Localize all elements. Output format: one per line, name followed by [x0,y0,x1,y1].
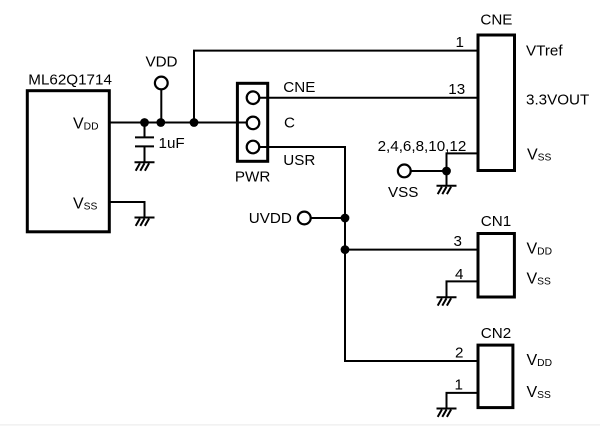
svg-text:VSS: VSS [73,195,98,212]
svg-text:C: C [284,115,295,132]
svg-text:1uF: 1uF [159,135,185,152]
svg-text:2,4,6,8,10,12: 2,4,6,8,10,12 [378,138,467,155]
svg-text:CN2: CN2 [481,325,511,342]
svg-text:VDD: VDD [73,116,99,133]
svg-text:VTref: VTref [526,43,563,60]
svg-text:VDD: VDD [527,352,553,369]
svg-text:PWR: PWR [235,169,270,186]
svg-text:3.3VOUT: 3.3VOUT [526,92,589,109]
svg-text:2: 2 [455,345,463,362]
svg-text:VSS: VSS [388,184,418,201]
svg-text:VDD: VDD [145,54,177,71]
svg-text:1: 1 [455,376,463,393]
svg-text:4: 4 [455,266,463,283]
svg-text:1: 1 [456,34,464,51]
svg-text:ML62Q1714: ML62Q1714 [28,71,112,88]
svg-text:USR: USR [283,152,315,169]
svg-text:VSS: VSS [527,271,552,288]
svg-text:3: 3 [454,233,462,250]
svg-text:CN1: CN1 [481,213,511,230]
svg-text:CNE: CNE [283,79,315,96]
svg-text:VDD: VDD [527,241,553,258]
svg-text:VSS: VSS [527,146,552,163]
svg-text:UVDD: UVDD [249,210,292,227]
svg-text:CNE: CNE [480,12,512,29]
svg-text:13: 13 [448,81,465,98]
svg-text:VSS: VSS [527,384,552,401]
